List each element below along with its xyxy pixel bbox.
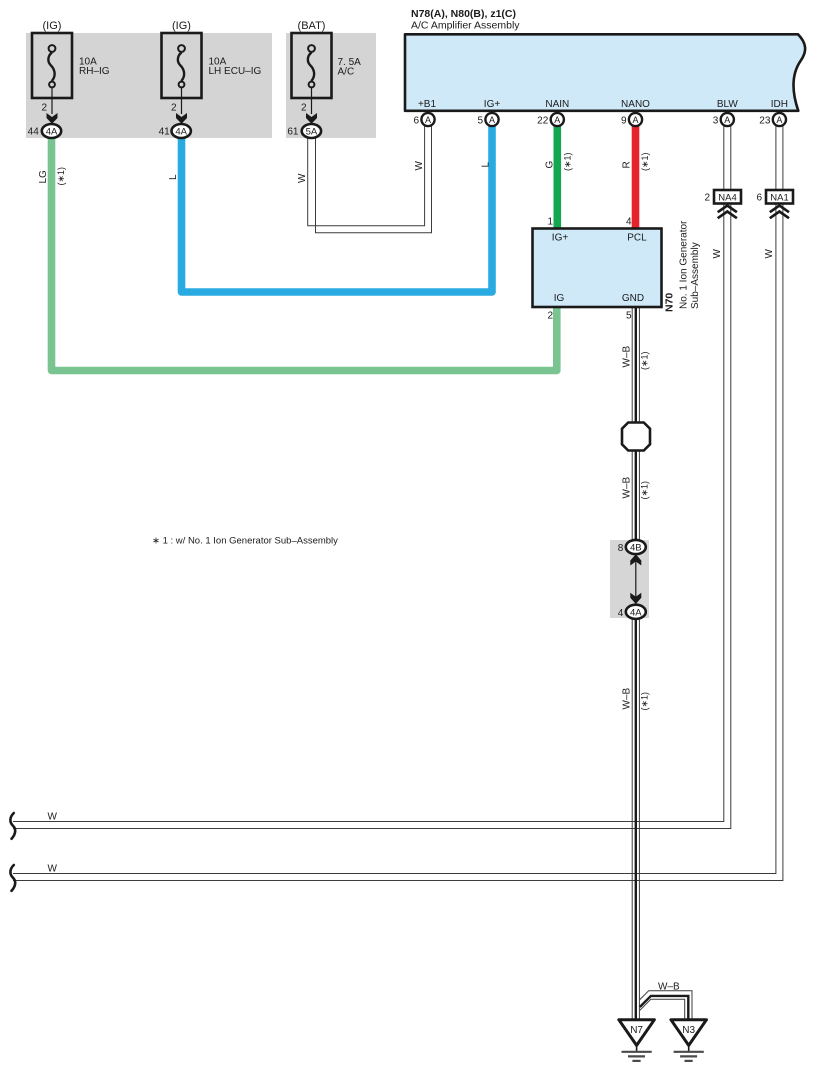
- svg-text:4: 4: [618, 608, 624, 619]
- svg-text:6: 6: [413, 116, 419, 127]
- svg-text:R: R: [622, 161, 633, 168]
- amp pin 9 NANO: [621, 113, 642, 127]
- svg-text:PCL: PCL: [627, 233, 647, 244]
- svg-text:LG: LG: [38, 170, 49, 184]
- wire W from fuse 61-5A to +B1 pin 6 (double line): [308, 126, 432, 233]
- svg-text:N7: N7: [630, 1025, 643, 1036]
- svg-text:W: W: [297, 173, 308, 183]
- svg-text:IG: IG: [554, 293, 565, 304]
- wire W from IDH pin 23 through NA1 down and left to break: [13, 126, 783, 881]
- svg-text:∗ 1 : w/ No. 1 Ion Generator: ∗ 1 : w/ No. 1 Ion Generator Sub–Assembl…: [152, 536, 338, 547]
- svg-text:W–B: W–B: [622, 477, 633, 499]
- N70 No.1 Ion Generator Sub-Assembly box: [533, 229, 662, 308]
- svg-text:A: A: [776, 115, 782, 125]
- wire G from NAIN pin 22 to N70 pin 1: [553, 126, 561, 230]
- connector oval 4 4A: [618, 605, 646, 619]
- svg-text:NA1: NA1: [770, 193, 788, 204]
- connector NA4: [704, 190, 741, 204]
- svg-text:6: 6: [756, 193, 762, 204]
- svg-text:61: 61: [287, 127, 299, 138]
- amp pin 23 IDH: [759, 113, 786, 127]
- amp pin 3 BLW: [713, 113, 734, 127]
- svg-text:A: A: [489, 115, 495, 125]
- svg-text:No. 1 Ion Generator: No. 1 Ion Generator: [679, 220, 690, 309]
- amp pin 22 NAIN: [537, 113, 564, 127]
- svg-text:IDH: IDH: [771, 99, 788, 110]
- svg-text:NANO: NANO: [621, 99, 650, 110]
- arrow up toward 4B: [630, 554, 641, 565]
- break symbol wire W lower: [10, 865, 15, 891]
- svg-text:9: 9: [621, 116, 627, 127]
- fuse panel background left: [26, 33, 272, 138]
- connector oval 44 4A: [28, 124, 62, 138]
- svg-text:2: 2: [704, 193, 710, 204]
- svg-text:W–B: W–B: [622, 346, 633, 368]
- ground N3: [671, 1020, 707, 1061]
- connector NA1: [756, 190, 793, 204]
- fuse panel background BAT: [286, 33, 376, 138]
- svg-text:N70: N70: [664, 293, 676, 312]
- svg-text:(∗1): (∗1): [640, 351, 650, 370]
- svg-text:2: 2: [547, 311, 553, 322]
- svg-text:22: 22: [537, 116, 549, 127]
- arrow into fuse2 connector: [176, 113, 187, 124]
- svg-text:(∗1): (∗1): [563, 152, 573, 171]
- fuse F1 10A RH-IG: [32, 20, 110, 114]
- svg-text:A: A: [554, 115, 560, 125]
- svg-text:N3: N3: [682, 1025, 695, 1036]
- svg-text:23: 23: [759, 116, 771, 127]
- N70 side designation: [664, 220, 702, 312]
- amp pin 5 IG+: [477, 113, 498, 127]
- svg-text:RH–IG: RH–IG: [79, 66, 110, 77]
- svg-text:3: 3: [713, 116, 719, 127]
- arrow down toward 4A: [630, 593, 641, 604]
- svg-text:5A: 5A: [306, 127, 318, 138]
- wire W-B from connector 4A down to ground N7: [632, 617, 639, 1020]
- arrow into fuse3 connector: [306, 113, 317, 124]
- svg-text:4B: 4B: [630, 543, 642, 554]
- connector oval 8 4B: [618, 540, 646, 554]
- A/C Amplifier Assembly box U1: [405, 8, 805, 111]
- connector panel background 4B/4A: [610, 540, 649, 618]
- svg-text:44: 44: [28, 127, 40, 138]
- fuse F2 10A LH ECU-IG: [162, 20, 262, 114]
- svg-text:W: W: [712, 249, 723, 259]
- svg-text:NAIN: NAIN: [545, 99, 569, 110]
- svg-text:W: W: [48, 812, 58, 823]
- connector oval 61 5A: [287, 124, 321, 138]
- svg-text:4: 4: [626, 217, 632, 228]
- svg-text:LH ECU–IG: LH ECU–IG: [209, 66, 262, 77]
- svg-text:W: W: [764, 249, 775, 259]
- svg-text:41: 41: [159, 127, 171, 138]
- fuse F3 7.5A A/C: [292, 20, 362, 114]
- svg-text:4A: 4A: [175, 127, 187, 138]
- chevrons below NA1: [770, 206, 789, 219]
- svg-text:2: 2: [301, 103, 307, 114]
- svg-text:A: A: [632, 115, 638, 125]
- svg-text:4A: 4A: [46, 127, 58, 138]
- wire R from NANO pin 9 to N70 pin 4: [632, 126, 640, 230]
- connector oval 41 4A: [159, 124, 191, 138]
- wire W from BLW pin 3 through NA4 down and left to break: [13, 126, 731, 829]
- arrow into fuse1 connector: [47, 113, 58, 124]
- svg-text:A: A: [724, 115, 730, 125]
- svg-text:A/C: A/C: [338, 67, 355, 78]
- break symbol wire W upper: [10, 813, 15, 839]
- svg-text:5: 5: [626, 311, 632, 322]
- svg-text:1: 1: [547, 217, 553, 228]
- wire L from fuse 41-4A to A/C amp IG+ pin 5: [182, 126, 493, 292]
- octagon splice joint: [622, 423, 650, 451]
- svg-text:4A: 4A: [630, 607, 642, 618]
- svg-text:Sub–Assembly: Sub–Assembly: [690, 242, 701, 309]
- wire LG from fuse 44-4A to N70 pin 2: [52, 137, 557, 371]
- svg-text:(∗1): (∗1): [640, 152, 650, 171]
- svg-text:W–B: W–B: [658, 982, 680, 993]
- svg-text:NA4: NA4: [718, 193, 736, 204]
- ground N7: [619, 1020, 655, 1061]
- svg-text:+B1: +B1: [418, 99, 437, 110]
- svg-text:(IG): (IG): [43, 20, 62, 32]
- svg-text:L: L: [481, 162, 492, 168]
- svg-text:A: A: [425, 115, 431, 125]
- svg-text:5: 5: [477, 116, 483, 127]
- svg-text:(IG): (IG): [172, 20, 191, 32]
- wire single lead between 4B and 4A: [635, 556, 637, 598]
- svg-text:GND: GND: [622, 293, 644, 304]
- svg-text:A/C Amplifier Assembly: A/C Amplifier Assembly: [411, 20, 520, 32]
- wire W-B from octagon to connector 4B: [632, 449, 639, 541]
- amp pin 6 +B1: [413, 113, 434, 127]
- svg-text:N78(A), N80(B), z1(C): N78(A), N80(B), z1(C): [411, 8, 516, 20]
- svg-text:IG+: IG+: [484, 99, 501, 110]
- svg-text:(BAT): (BAT): [298, 20, 326, 32]
- svg-text:2: 2: [41, 103, 47, 114]
- svg-text:IG+: IG+: [552, 233, 569, 244]
- svg-text:W–B: W–B: [622, 688, 633, 710]
- wire W-B from N70 GND pin 5 to octagon joint: [632, 306, 639, 424]
- wire W-B branch to ground N3: [640, 991, 692, 1020]
- svg-text:2: 2: [171, 103, 177, 114]
- svg-text:BLW: BLW: [717, 99, 738, 110]
- svg-text:(∗1): (∗1): [640, 481, 650, 500]
- svg-text:(∗1): (∗1): [640, 692, 650, 711]
- svg-text:(∗1): (∗1): [56, 167, 66, 186]
- svg-text:W: W: [48, 864, 58, 875]
- chevrons below NA4: [718, 206, 737, 219]
- svg-text:W: W: [414, 161, 425, 171]
- svg-text:G: G: [545, 161, 556, 169]
- svg-text:8: 8: [618, 543, 624, 554]
- svg-text:L: L: [168, 174, 179, 180]
